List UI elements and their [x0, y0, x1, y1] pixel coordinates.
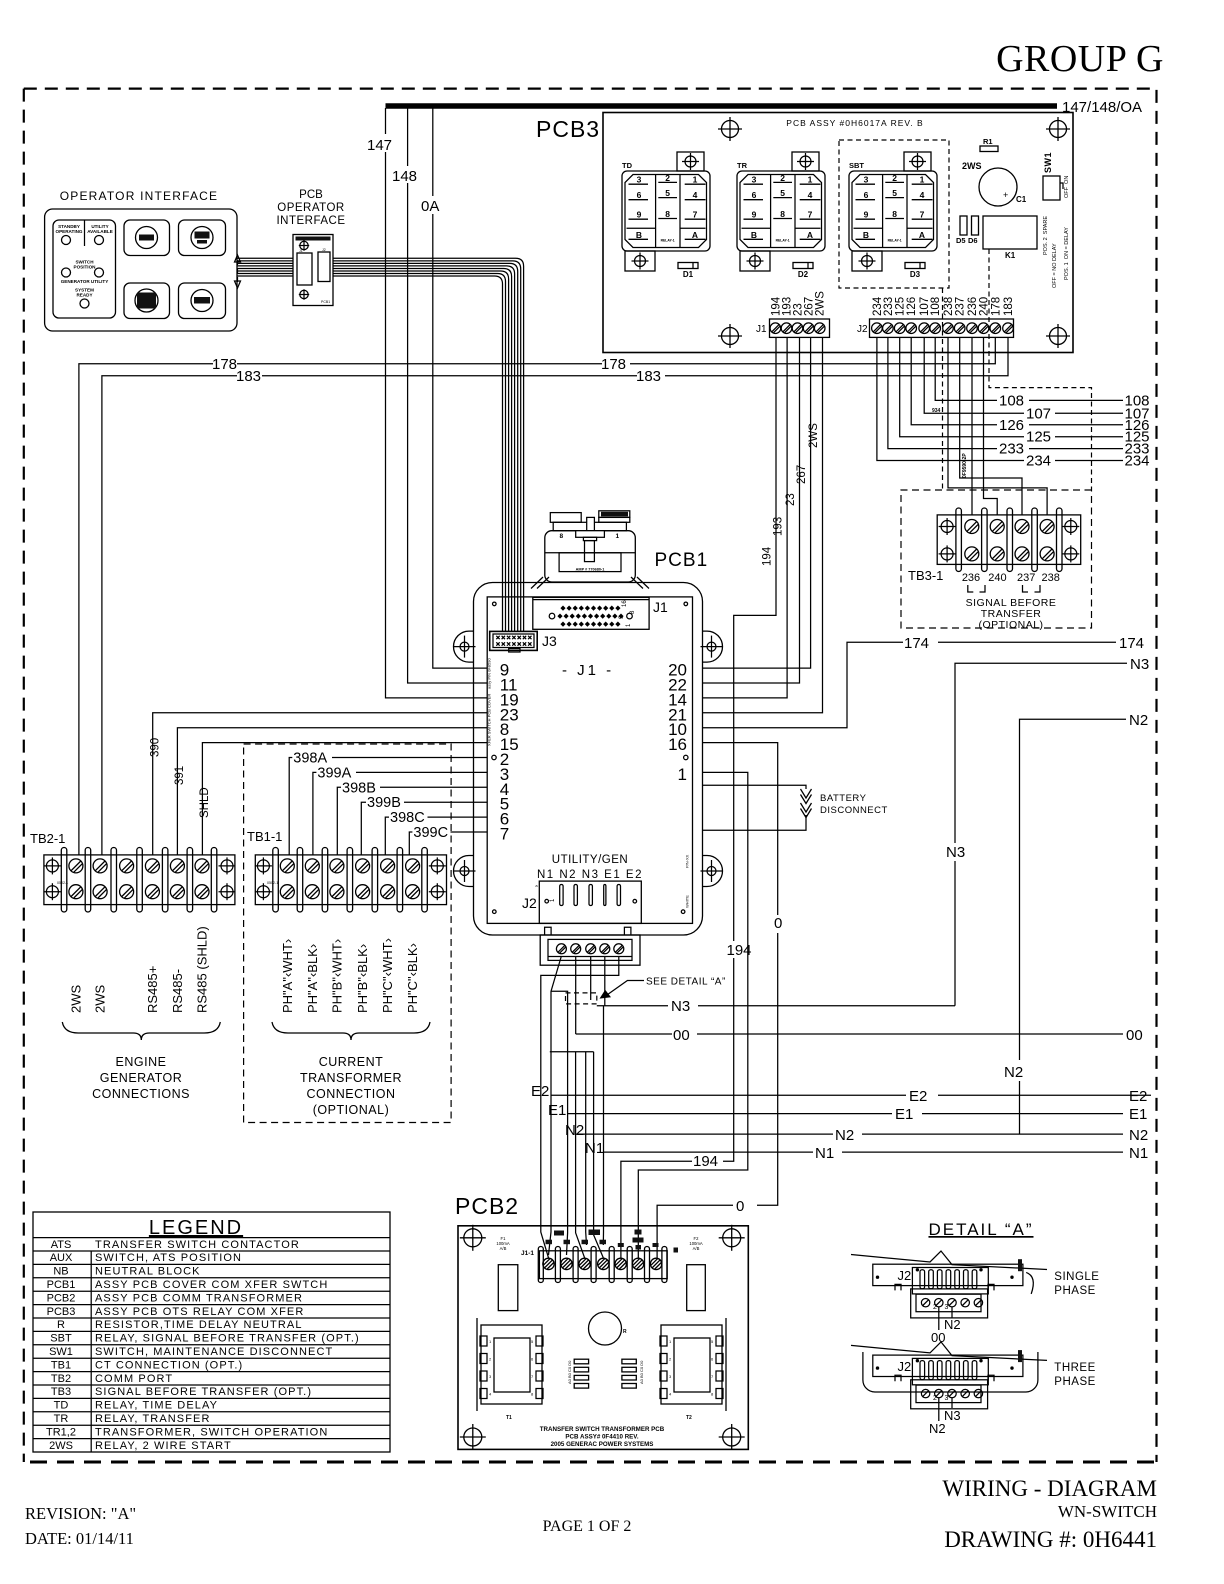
svg-text:N3: N3 [1130, 656, 1149, 673]
svg-text:7: 7 [920, 210, 925, 220]
svg-text:E2: E2 [1129, 1088, 1147, 1105]
wire 107 to right edge [924, 337, 1123, 413]
svg-text:GENERATOR: GENERATOR [100, 1071, 183, 1085]
svg-text:SIGNAL BEFORE TRANSFER (OPT.): SIGNAL BEFORE TRANSFER (OPT.) [95, 1386, 312, 1398]
svg-text:N1: N1 [815, 1145, 834, 1162]
TB3 dashed enclosure [901, 490, 1092, 628]
svg-text:N3: N3 [944, 1408, 961, 1423]
svg-text:A: A [919, 230, 925, 240]
svg-text:3: 3 [752, 175, 757, 185]
svg-text:PH"B"‹WHT›: PH"B"‹WHT› [329, 939, 344, 1013]
svg-text:1: 1 [693, 175, 698, 185]
PCB3 mounting hole bottom-right [1046, 324, 1070, 348]
J2 pin 126 [906, 323, 917, 334]
svg-text:RELAY-1: RELAY-1 [776, 239, 790, 243]
wire 0A [433, 108, 487, 668]
resistor bank left [574, 1359, 588, 1364]
svg-text:N2: N2 [1129, 712, 1148, 729]
svg-text:0502-1: 0502-1 [267, 881, 278, 885]
svg-text:D1: D1 [683, 270, 694, 279]
svg-text:TR: TR [54, 1413, 69, 1425]
button manual [179, 220, 226, 256]
svg-text:00: 00 [1126, 1027, 1143, 1044]
svg-text:16: 16 [622, 600, 628, 607]
legend table [33, 1212, 390, 1452]
wire N3 vertical right [955, 663, 1127, 1005]
J2 pin 183 [1003, 323, 1014, 334]
svg-text:2: 2 [665, 173, 670, 183]
three phase rounded frame [863, 1352, 1038, 1392]
battery disconnect arrows [801, 789, 812, 804]
J1 pin 193 [781, 323, 792, 334]
svg-text:B: B [636, 230, 642, 240]
svg-text:OPERATING: OPERATING [56, 229, 83, 234]
svg-text:A0 B0 C0 D0: A0 B0 C0 D0 [567, 1360, 572, 1384]
svg-text:J2: J2 [857, 324, 868, 335]
svg-text:DRAWING #: 0H6441: DRAWING #: 0H6441 [944, 1527, 1157, 1552]
svg-text:108: 108 [999, 392, 1024, 409]
svg-text:J3: J3 [542, 633, 557, 649]
svg-text:DETAIL “A”: DETAIL “A” [928, 1220, 1033, 1239]
wire 2WS from J1 to PCB1 pin 21 [703, 337, 823, 712]
svg-text:4: 4 [693, 190, 698, 200]
wire N1 vert [602, 1006, 604, 1245]
svg-text:WHITE: WHITE [685, 895, 690, 908]
svg-text:9: 9 [752, 210, 757, 220]
svg-text:0A: 0A [421, 198, 439, 215]
svg-text:AMP # 770680-1: AMP # 770680-1 [576, 567, 605, 571]
transformer T2 [725, 1318, 727, 1411]
svg-text:READY: READY [76, 293, 92, 298]
svg-text:REVISION: "A": REVISION: "A" [25, 1504, 136, 1523]
wire 399B [361, 802, 487, 855]
svg-text:LEGEND: LEGEND [149, 1217, 243, 1239]
svg-text:SINGLE: SINGLE [1054, 1271, 1099, 1283]
PCB2 terminal screw [579, 1258, 590, 1269]
svg-text:3: 3 [945, 1395, 949, 1402]
svg-text:TB2: TB2 [51, 1373, 71, 1385]
svg-text:2WS: 2WS [68, 985, 83, 1014]
svg-text:1: 1 [920, 175, 925, 185]
ribbon cable pcb to PCB1 J3 [333, 258, 524, 632]
capacitor C1 [979, 168, 1017, 206]
svg-text:2: 2 [933, 1395, 937, 1402]
wire 240 to TB3-1 [984, 337, 998, 515]
svg-text:NEUTRAL BLOCK: NEUTRAL BLOCK [95, 1266, 201, 1278]
svg-text:J1: J1 [756, 324, 767, 335]
svg-text:A: A [692, 230, 698, 240]
svg-text:A: A [807, 230, 813, 240]
wire screw4 to N3 [604, 957, 606, 1006]
svg-text:R1: R1 [983, 137, 993, 146]
varistor circle [589, 1312, 622, 1345]
svg-text:- J1 -: - J1 - [562, 662, 614, 679]
svg-text:00: 00 [931, 1330, 945, 1345]
svg-text:CURRENT: CURRENT [319, 1055, 384, 1069]
svg-text:PH"A"‹BLK›: PH"A"‹BLK› [305, 944, 320, 1013]
wire N3 line [597, 1005, 955, 1007]
svg-text:194: 194 [693, 1153, 718, 1170]
J2 pin 240 [978, 323, 989, 334]
svg-text:POSITION: POSITION [74, 265, 97, 270]
battery disconnect wires [703, 785, 807, 830]
svg-text:399B: 399B [367, 795, 401, 811]
svg-text:2WS: 2WS [815, 291, 827, 316]
svg-text:B: B [863, 230, 869, 240]
PCB2 terminal screw [650, 1258, 661, 1269]
svg-text:125: 125 [895, 297, 907, 316]
svg-text:3: 3 [637, 175, 642, 185]
wire E2 line [551, 1094, 1151, 1096]
svg-text:TB3-1: TB3-1 [908, 568, 943, 583]
detail single phase wires N2 / 00 [939, 1307, 952, 1331]
wire 178 [79, 337, 995, 855]
svg-text:4: 4 [920, 190, 925, 200]
svg-text:TR: TR [737, 161, 748, 170]
PCB2 terminal screw [632, 1258, 643, 1269]
wire 238 to TB3-1 [948, 337, 1047, 515]
svg-text:N3: N3 [946, 844, 965, 861]
svg-text:SW1: SW1 [49, 1346, 73, 1358]
svg-text:398A: 398A [293, 751, 327, 767]
wire N1 screw1 down [549, 956, 562, 1255]
svg-text:AVAILABLE: AVAILABLE [87, 229, 113, 234]
svg-text:00: 00 [673, 1027, 690, 1044]
svg-text:J2: J2 [898, 1268, 912, 1283]
PCB1 mounting ear bottom-right [703, 856, 723, 887]
svg-text:PCB3: PCB3 [47, 1306, 76, 1318]
svg-text:193: 193 [773, 517, 785, 536]
wire 398B [337, 787, 487, 855]
svg-text:A/B: A/B [693, 1246, 700, 1251]
terminal block TB3-1 [937, 515, 1080, 565]
svg-text:8: 8 [892, 209, 897, 219]
PCB operator interface board [293, 235, 333, 306]
svg-text:RELAY, TIME DELAY: RELAY, TIME DELAY [95, 1400, 218, 1412]
J2 pin 238 [943, 323, 954, 334]
wire screw2 to 00 [575, 957, 577, 1034]
svg-text:ASSY PCB COVER COM XFER SWTCH: ASSY PCB COVER COM XFER SWTCH [95, 1279, 328, 1291]
svg-text:236: 236 [967, 297, 979, 316]
svg-text:0: 0 [736, 1198, 744, 1215]
svg-text:PH"C"‹WHT›: PH"C"‹WHT› [380, 938, 395, 1013]
screw hole bottom [299, 289, 309, 299]
svg-text:147: 147 [367, 137, 392, 154]
svg-text:183: 183 [1003, 297, 1015, 316]
svg-text:399C: 399C [413, 825, 448, 841]
wire 125 to right edge [900, 337, 1123, 436]
svg-text:TB3: TB3 [51, 1386, 71, 1398]
svg-text:267: 267 [796, 465, 808, 484]
svg-text:OFF ON: OFF ON [1064, 176, 1070, 198]
svg-text:J1: J1 [653, 599, 668, 615]
svg-text:8: 8 [780, 209, 785, 219]
svg-text:E1: E1 [895, 1106, 913, 1123]
svg-text:T2: T2 [686, 1415, 692, 1421]
svg-text:4: 4 [808, 190, 813, 200]
svg-text:N2: N2 [1129, 1127, 1148, 1144]
svg-text:TB1: TB1 [51, 1359, 71, 1371]
TB1 dashed enclosure [244, 744, 452, 1123]
wire 108 to right edge [935, 337, 1123, 400]
svg-text:RS485-: RS485- [170, 969, 185, 1013]
wire 236 to TB3-1 [971, 337, 973, 515]
svg-text:RELAY, SIGNAL BEFORE TRANSFER: RELAY, SIGNAL BEFORE TRANSFER (OPT.) [95, 1333, 360, 1345]
J2 pin 237 [954, 323, 965, 334]
svg-text:178: 178 [601, 356, 626, 373]
wire N1 line [604, 1151, 1124, 1153]
svg-text:234: 234 [1125, 453, 1150, 470]
wire 237 to TB3-1 [960, 337, 1022, 515]
svg-text:D3: D3 [910, 270, 921, 279]
page bottom dashed border [30, 1461, 1160, 1464]
diode D2 [793, 263, 813, 269]
svg-text:ASSY PCB OTS RELAY COM XFER: ASSY PCB OTS RELAY COM XFER [95, 1306, 304, 1318]
wire 147 [386, 108, 488, 698]
svg-text:PCB1: PCB1 [47, 1279, 76, 1291]
svg-text:2WS: 2WS [93, 985, 108, 1014]
svg-text:PCB3: PCB3 [536, 116, 600, 142]
svg-text:238: 238 [1042, 572, 1060, 584]
svg-text:7: 7 [693, 210, 698, 220]
J2 pin 125 [894, 323, 905, 334]
LED indicators [62, 236, 71, 245]
svg-text:SW1: SW1 [1043, 152, 1053, 173]
svg-text:PCB ASSY #0H6017A REV. B: PCB ASSY #0H6017A REV. B [786, 118, 923, 128]
J1 pin 2WS [814, 323, 825, 334]
J1 pin 23 [792, 323, 803, 334]
svg-text:194: 194 [762, 546, 774, 566]
PCB1 bottom edge notches [545, 927, 631, 935]
relay K1 [983, 216, 1037, 249]
svg-text:ATS: ATS [51, 1239, 72, 1251]
brace engine generator [62, 1022, 220, 1040]
detail three phase connector J2 [851, 1342, 1047, 1361]
svg-text:SWITCH, MAINTENANCE DISCONNECT: SWITCH, MAINTENANCE DISCONNECT [95, 1346, 333, 1358]
detail A dashed box [566, 993, 597, 1004]
svg-text:N2: N2 [944, 1317, 961, 1332]
button test [124, 220, 170, 256]
svg-text:240: 240 [988, 572, 1006, 584]
svg-text:236: 236 [962, 572, 980, 584]
svg-text:N1 N2 N3 E1 E2: N1 N2 N3 E1 E2 [537, 869, 643, 881]
ribbon cable operator interface to pcb [237, 258, 293, 276]
detail single phase connector J2 [851, 1251, 1047, 1270]
svg-text:391: 391 [174, 766, 186, 785]
svg-text:A/B: A/B [500, 1246, 507, 1251]
J2 pin 107 [919, 323, 930, 334]
svg-text:POS. 1 ON = DELAY: POS. 1 ON = DELAY [1064, 227, 1070, 280]
PCB1 cover outline [474, 583, 703, 936]
svg-text:INTERFACE: INTERFACE [276, 215, 345, 227]
svg-text:147/148/OA: 147/148/OA [1062, 99, 1142, 116]
svg-text:J2: J2 [522, 895, 537, 911]
svg-text:1: 1 [678, 765, 687, 784]
J1 pin 267 [803, 323, 814, 334]
svg-text:8: 8 [665, 209, 670, 219]
svg-text:183: 183 [236, 368, 261, 385]
PCB2 mounting holes [460, 1225, 486, 1251]
svg-text:N1: N1 [1129, 1145, 1148, 1162]
diode D6 [972, 216, 979, 235]
svg-text:J2: J2 [322, 248, 326, 252]
svg-text:N2: N2 [1004, 1064, 1023, 1081]
wire 174 [703, 642, 1117, 727]
wire pin 1 to PCB2 [638, 772, 748, 1258]
svg-text:BATTERY: BATTERY [820, 793, 867, 804]
svg-text:2WS: 2WS [49, 1440, 73, 1452]
svg-text:398B: 398B [342, 780, 376, 796]
svg-text:1: 1 [616, 533, 620, 540]
svg-text:PH"B"‹BLK›: PH"B"‹BLK› [355, 944, 370, 1013]
connector J1 on interface board [297, 253, 312, 285]
dashed link K1 to TB3 [989, 249, 1092, 490]
ribbon connector arrow [235, 255, 241, 288]
svg-text:K1: K1 [1005, 251, 1016, 260]
svg-text:N2: N2 [929, 1421, 946, 1436]
svg-text:2: 2 [892, 173, 897, 183]
svg-text:assy P/N 0F8590: assy P/N 0F8590 [487, 658, 492, 689]
svg-text:UTILITY/GEN: UTILITY/GEN [552, 854, 628, 866]
dashed link SBT to TB3 [942, 288, 944, 490]
svg-text:PCB2: PCB2 [47, 1292, 76, 1304]
wire 00 line [576, 1033, 1123, 1035]
wire E2 down [541, 957, 619, 1258]
svg-text:RELAY-1: RELAY-1 [661, 239, 675, 243]
wire 194 from J1 [621, 337, 776, 1258]
svg-text:126: 126 [906, 297, 918, 316]
svg-text:SHLD: SHLD [199, 787, 211, 818]
svg-text:7: 7 [808, 210, 813, 220]
PCB2 terminal screw [543, 1258, 554, 1269]
wire 398C [385, 817, 487, 855]
svg-text:TD: TD [622, 161, 633, 170]
svg-text:WIRING - DIAGRAM: WIRING - DIAGRAM [942, 1476, 1157, 1501]
svg-text:TRANSFORMER, SWITCH OPERATION: TRANSFORMER, SWITCH OPERATION [95, 1426, 328, 1438]
diode D5 [960, 216, 967, 235]
svg-text:J1: J1 [299, 249, 303, 253]
svg-text:233: 233 [999, 441, 1024, 458]
svg-text:390: 390 [150, 738, 162, 757]
svg-text:SBT: SBT [849, 161, 864, 170]
PCB2 board [458, 1226, 748, 1450]
button switch-to-generator [124, 283, 170, 319]
wire N2 vertical right [1020, 719, 1127, 1134]
svg-text:E2: E2 [909, 1088, 927, 1105]
operator interface outer box [45, 209, 237, 331]
svg-text:2WS: 2WS [808, 423, 820, 448]
svg-text:3: 3 [864, 175, 869, 185]
svg-text:TRANSFORMER: TRANSFORMER [300, 1071, 402, 1085]
svg-text:N2: N2 [835, 1127, 854, 1144]
svg-text:PCB1: PCB1 [655, 550, 709, 571]
svg-text:2WS: 2WS [962, 161, 982, 171]
svg-text:233: 233 [883, 297, 895, 316]
svg-text:PCB ASSY# 0F4410 REV.: PCB ASSY# 0F4410 REV. [565, 1434, 638, 1441]
svg-text:ENGINE: ENGINE [116, 1055, 167, 1069]
svg-text:E1: E1 [1129, 1106, 1147, 1123]
svg-text:DATE: 01/14/11: DATE: 01/14/11 [25, 1529, 134, 1548]
svg-text:D6: D6 [968, 236, 978, 245]
TB3 group brackets [968, 585, 1040, 592]
transformer T1 [476, 1318, 478, 1411]
svg-text:TRANSFER SWITCH CONTACTOR: TRANSFER SWITCH CONTACTOR [95, 1239, 300, 1251]
svg-text:3: 3 [945, 1304, 949, 1311]
H2 link [551, 991, 568, 1255]
svg-text:J2: J2 [898, 1359, 912, 1374]
wire 267 from J1 to PCB1 pin 20 [703, 337, 811, 668]
J2 pin 233 [883, 323, 894, 334]
PCB1 J1 mating connector drawing [545, 511, 636, 582]
J2 pin 178 [990, 323, 1001, 334]
PCB2 terminal screw [561, 1258, 572, 1269]
svg-text:N3: N3 [671, 998, 690, 1015]
svg-text:RS485 (SHLD): RS485 (SHLD) [195, 926, 210, 1013]
svg-text:D5: D5 [956, 236, 966, 245]
svg-text:SEE DETAIL “A”: SEE DETAIL “A” [646, 977, 726, 988]
svg-text:P/N-XX: P/N-XX [685, 854, 690, 868]
svg-text:OPERATOR: OPERATOR [277, 202, 344, 214]
svg-text:PCB: PCB [299, 189, 323, 201]
svg-text:+: + [1003, 190, 1008, 200]
svg-text:178: 178 [212, 356, 237, 373]
detail three phase wires N3 / N2 [939, 1397, 952, 1421]
connector leader hatch marks [531, 577, 649, 589]
svg-text:C1: C1 [1016, 195, 1027, 204]
PCB2 tiny wire tags [546, 1230, 679, 1253]
svg-text:0F9590-2P: 0F9590-2P [962, 453, 968, 478]
svg-text:9: 9 [864, 210, 869, 220]
operator interface display panel [53, 220, 116, 318]
svg-text:108: 108 [930, 297, 942, 316]
connector J3 on PCB1 [490, 631, 538, 650]
PCB3 mounting hole top-right [1046, 117, 1070, 141]
svg-text:174: 174 [904, 635, 929, 652]
svg-text:148: 148 [392, 168, 417, 185]
svg-text:RS485+: RS485+ [145, 966, 160, 1013]
svg-text:RELAY, 2 WIRE START: RELAY, 2 WIRE START [95, 1440, 232, 1452]
divider [84, 220, 86, 246]
svg-text:R: R [57, 1319, 65, 1331]
svg-text:OPERATOR INTERFACE: OPERATOR INTERFACE [60, 189, 219, 203]
connector J1 header on PCB1 [533, 597, 649, 629]
wire SHLD [202, 743, 487, 855]
screw hole top [299, 240, 309, 250]
svg-text:GROUP G: GROUP G [996, 38, 1164, 80]
wire 23 from J1 to PCB1 pin 22 [703, 337, 800, 683]
svg-text:5: 5 [892, 188, 897, 198]
svg-text:16: 16 [668, 735, 687, 754]
wire 399C [409, 832, 487, 855]
svg-text:RESISTOR,TIME DELAY NEUTRAL: RESISTOR,TIME DELAY NEUTRAL [95, 1319, 303, 1331]
svg-text:126: 126 [999, 417, 1024, 434]
svg-text:PCB2: PCB2 [455, 1193, 519, 1219]
svg-text:SWITCH, ATS POSITION: SWITCH, ATS POSITION [95, 1252, 242, 1264]
svg-text:107: 107 [1026, 405, 1051, 422]
wire 234 to right edge [877, 337, 1123, 460]
svg-text:237: 237 [955, 297, 967, 316]
svg-text:6: 6 [864, 190, 869, 200]
see detail A leader [606, 981, 645, 997]
wire 193 from J1 to PCB1 pin 14 [703, 337, 788, 698]
svg-text:237: 237 [1017, 572, 1035, 584]
resistor bank right [622, 1359, 636, 1364]
svg-text:5: 5 [665, 188, 670, 198]
wire N2 line [576, 1133, 1123, 1135]
wire E1 line [568, 1113, 1123, 1115]
svg-text:COMM PORT: COMM PORT [95, 1373, 173, 1385]
svg-text:TB2-1: TB2-1 [30, 831, 65, 846]
